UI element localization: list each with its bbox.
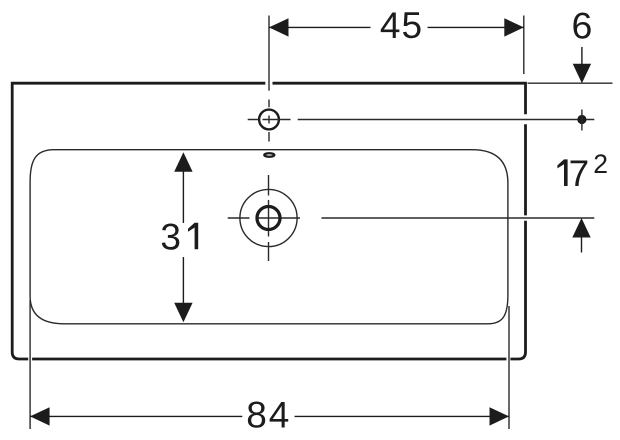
dim 17 leader stub bbox=[581, 237, 583, 253]
dim 17 arrow up bbox=[572, 218, 590, 238]
svg-text:3: 3 bbox=[160, 216, 181, 257]
dim 6 extension line (top edge extended) bbox=[528, 82, 613, 84]
drain outer circle bbox=[240, 189, 297, 246]
dim 84 extension line left bbox=[29, 300, 31, 429]
dim 84 arrow left bbox=[30, 407, 49, 425]
dim 17 label bbox=[557, 159, 567, 186]
drain centerline horizontal bbox=[228, 217, 595, 219]
dim 84 arrow right bbox=[490, 407, 510, 425]
dim 17 dot tick bbox=[581, 110, 583, 131]
tap hole circle bbox=[259, 110, 279, 130]
svg-text:2: 2 bbox=[593, 149, 608, 179]
dim 17 dot terminator bbox=[577, 115, 586, 124]
tap hole centerline vertical bbox=[268, 100, 270, 142]
dim 6 leader stub bbox=[581, 47, 583, 64]
dim 45 arrow left bbox=[269, 18, 289, 36]
dim 6 arrow down bbox=[573, 64, 591, 83]
washbasin inner bowl outline bbox=[30, 150, 508, 324]
tap hole centerline horizontal bbox=[248, 119, 595, 121]
drain inner circle bbox=[257, 207, 280, 230]
dim 45 extension line left bbox=[268, 16, 270, 91]
drain centerline vertical bbox=[268, 175, 270, 261]
dim 31 arrow down bbox=[174, 303, 192, 323]
svg-text:6: 6 bbox=[571, 5, 592, 47]
svg-text:84: 84 bbox=[246, 394, 291, 435]
dim 84 extension line right bbox=[508, 306, 510, 429]
dim 45 dimension line bbox=[269, 26, 524, 28]
dim 45 extension line right bbox=[523, 16, 525, 75]
dim 84 dimension line bbox=[30, 415, 509, 417]
svg-text:45: 45 bbox=[380, 5, 423, 46]
washbasin outer ceramic outline bbox=[12, 83, 525, 359]
dim 31 arrow up bbox=[174, 152, 192, 172]
dim 45 arrow right bbox=[504, 18, 524, 36]
dim 31 dimension line bbox=[182, 170, 184, 303]
overflow slot oval bbox=[264, 153, 274, 157]
svg-text:7: 7 bbox=[569, 153, 590, 194]
